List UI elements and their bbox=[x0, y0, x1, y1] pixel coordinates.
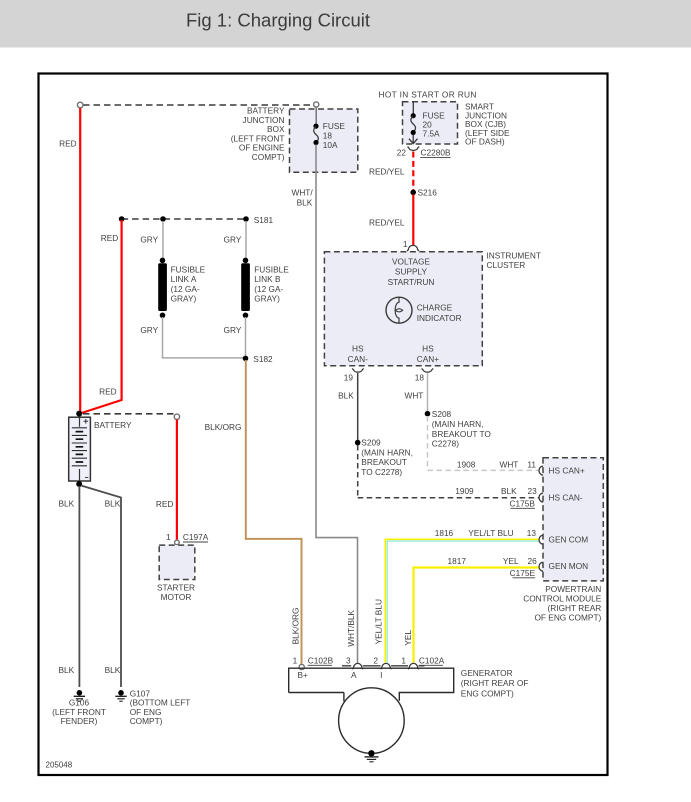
svg-text:(12 GA-: (12 GA- bbox=[254, 284, 283, 294]
svg-text:205048: 205048 bbox=[46, 761, 73, 770]
svg-text:SUPPLY: SUPPLY bbox=[395, 267, 428, 277]
wire RED left vertical bbox=[79, 108, 81, 412]
svg-text:Fig 1: Charging Circuit: Fig 1: Charging Circuit bbox=[186, 10, 370, 31]
generator connector row bbox=[342, 665, 425, 667]
fusible link B bbox=[243, 258, 249, 264]
node S182 bbox=[243, 356, 249, 362]
svg-text:YEL: YEL bbox=[503, 556, 519, 566]
diagram frame bbox=[39, 74, 608, 776]
svg-text:POWERTRAIN: POWERTRAIN bbox=[545, 584, 601, 594]
svg-text:3: 3 bbox=[346, 655, 351, 665]
svg-text:OF ENG COMPT): OF ENG COMPT) bbox=[534, 612, 601, 622]
svg-text:B+: B+ bbox=[298, 670, 309, 680]
svg-text:10A: 10A bbox=[323, 140, 338, 150]
wire GRY to fusible link A bbox=[162, 221, 164, 259]
svg-text:GRY: GRY bbox=[140, 325, 158, 335]
svg-text:S182: S182 bbox=[253, 354, 273, 364]
wire BLK/ORG S182 to generator B+ bbox=[246, 360, 302, 664]
svg-text:RED: RED bbox=[99, 387, 117, 397]
pin 1 bump bbox=[408, 663, 419, 669]
pin 26 C175E bbox=[539, 561, 544, 572]
svg-text:C102B: C102B bbox=[308, 655, 334, 665]
battery bbox=[69, 417, 91, 481]
wire RED from S181 to battery bbox=[80, 220, 122, 414]
powertrain control module box bbox=[543, 458, 603, 581]
svg-text:WHT/: WHT/ bbox=[291, 188, 313, 198]
svg-text:GRY: GRY bbox=[224, 234, 242, 244]
svg-text:CONTROL MODULE: CONTROL MODULE bbox=[523, 593, 602, 603]
svg-text:CAN+: CAN+ bbox=[417, 354, 440, 364]
smart junction box bbox=[403, 102, 458, 144]
svg-text:STARTER: STARTER bbox=[157, 582, 195, 592]
wire GRY link A to S182 bbox=[163, 317, 244, 358]
svg-text:YEL/LT BLU: YEL/LT BLU bbox=[468, 528, 513, 538]
svg-text:BLK: BLK bbox=[105, 499, 121, 509]
svg-text:BLK: BLK bbox=[105, 665, 121, 675]
svg-text:GRAY): GRAY) bbox=[254, 294, 280, 304]
svg-text:1: 1 bbox=[401, 655, 406, 665]
fusible link A bbox=[160, 258, 166, 264]
wire dashed battery to starter bbox=[83, 413, 174, 415]
svg-text:GEN MON: GEN MON bbox=[549, 561, 589, 571]
svg-text:S209: S209 bbox=[361, 438, 381, 448]
svg-text:(MAIN HARN,: (MAIN HARN, bbox=[361, 447, 413, 457]
title bar bbox=[0, 0, 691, 48]
pin 18 bbox=[422, 368, 434, 372]
svg-text:BLK/ORG: BLK/ORG bbox=[205, 422, 242, 432]
svg-text:WHT: WHT bbox=[499, 459, 518, 469]
svg-text:RED/YEL: RED/YEL bbox=[369, 166, 405, 176]
svg-text:1817: 1817 bbox=[448, 556, 467, 566]
svg-text:RED/YEL: RED/YEL bbox=[369, 218, 405, 228]
node S216 bbox=[410, 190, 416, 196]
svg-text:(MAIN HARN,: (MAIN HARN, bbox=[432, 419, 484, 429]
svg-text:INDICATOR: INDICATOR bbox=[417, 313, 462, 323]
generator ground bbox=[368, 750, 374, 756]
instrument cluster box bbox=[324, 252, 482, 366]
svg-text:COMPT): COMPT) bbox=[252, 152, 285, 162]
svg-text:MOTOR: MOTOR bbox=[161, 592, 192, 602]
wire 1817 YEL bbox=[414, 568, 539, 663]
ground G107 bbox=[118, 690, 124, 696]
wire 1816 YEL/LT BLU bbox=[385, 539, 539, 663]
svg-text:CAN-: CAN- bbox=[348, 354, 369, 364]
wire GRY to fusible link B bbox=[245, 221, 247, 259]
svg-text:GEN COM: GEN COM bbox=[549, 534, 589, 544]
svg-text:C102A: C102A bbox=[419, 655, 445, 665]
wire WHT pin18 to S208 bbox=[427, 373, 429, 411]
svg-text:BLK: BLK bbox=[59, 499, 75, 509]
svg-text:CLUSTER: CLUSTER bbox=[487, 260, 526, 270]
wire WHT/BLK BJB to generator A bbox=[316, 145, 358, 664]
svg-text:S181: S181 bbox=[254, 215, 274, 225]
fuse 18 bbox=[315, 107, 317, 124]
svg-text:11: 11 bbox=[527, 459, 536, 469]
svg-text:(RIGHT REAR OF: (RIGHT REAR OF bbox=[461, 678, 529, 688]
pin 1 C197A bbox=[175, 540, 180, 545]
svg-text:GRY: GRY bbox=[224, 325, 242, 335]
svg-text:GENERATOR: GENERATOR bbox=[461, 668, 513, 678]
pin 11 bbox=[539, 465, 544, 476]
svg-text:BREAKOUT: BREAKOUT bbox=[361, 457, 407, 467]
node S181 bbox=[119, 216, 125, 222]
svg-text:1: 1 bbox=[403, 239, 408, 249]
ground G106 bbox=[77, 690, 83, 696]
node battery positive bbox=[76, 411, 82, 417]
svg-text:13: 13 bbox=[527, 528, 537, 538]
svg-text:1909: 1909 bbox=[455, 486, 474, 496]
pin 2 bump bbox=[381, 663, 392, 669]
svg-text:22: 22 bbox=[397, 148, 407, 158]
wire 1908 WHT dashed bbox=[428, 416, 539, 470]
svg-text:S216: S216 bbox=[418, 188, 438, 198]
svg-text:HS: HS bbox=[422, 344, 434, 354]
svg-text:23: 23 bbox=[527, 486, 537, 496]
svg-text:HS: HS bbox=[352, 344, 364, 354]
wire 1909 BLK dashed bbox=[358, 445, 539, 498]
svg-text:S208: S208 bbox=[432, 409, 452, 419]
wire dashed top bus bbox=[83, 104, 313, 106]
svg-text:(12 GA-: (12 GA- bbox=[171, 284, 200, 294]
svg-text:FUSIBLE: FUSIBLE bbox=[254, 264, 289, 274]
svg-text:RED: RED bbox=[59, 139, 77, 149]
svg-text:A: A bbox=[351, 670, 357, 680]
svg-text:C175B: C175B bbox=[510, 498, 536, 508]
svg-text:HS CAN-: HS CAN- bbox=[549, 492, 583, 502]
wire RED to starter motor bbox=[176, 420, 178, 541]
pin 23 C175B bbox=[539, 492, 544, 503]
svg-text:OF DASH): OF DASH) bbox=[465, 137, 505, 147]
node B+ open circle bbox=[299, 664, 304, 669]
svg-text:1: 1 bbox=[166, 532, 171, 542]
svg-text:YEL: YEL bbox=[403, 630, 413, 646]
svg-text:1816: 1816 bbox=[435, 528, 454, 538]
wire RED/YEL S216 to cluster pin 1 bbox=[412, 195, 414, 246]
pin 3 bump bbox=[352, 663, 363, 669]
svg-text:YEL/LT BLU: YEL/LT BLU bbox=[373, 599, 383, 644]
svg-text:RED: RED bbox=[101, 233, 119, 243]
pin 19 bbox=[352, 368, 364, 372]
svg-text:START/RUN: START/RUN bbox=[388, 277, 435, 287]
svg-text:BLK: BLK bbox=[59, 665, 75, 675]
svg-text:2: 2 bbox=[373, 655, 378, 665]
svg-text:BLK: BLK bbox=[338, 391, 354, 401]
svg-text:TO C2278): TO C2278) bbox=[361, 467, 402, 477]
node S208 bbox=[425, 411, 431, 417]
svg-text:C2278): C2278) bbox=[432, 439, 459, 449]
svg-text:FUSE: FUSE bbox=[323, 121, 346, 131]
svg-text:7.5A: 7.5A bbox=[423, 129, 441, 139]
svg-text:18: 18 bbox=[415, 372, 425, 382]
node top-left open circle bbox=[77, 102, 83, 108]
svg-text:FUSIBLE: FUSIBLE bbox=[171, 264, 206, 274]
svg-text:18: 18 bbox=[323, 131, 333, 141]
svg-text:19: 19 bbox=[344, 372, 354, 382]
svg-text:FENDER): FENDER) bbox=[61, 716, 98, 726]
battery junction box bbox=[290, 109, 358, 172]
svg-text:COMPT): COMPT) bbox=[130, 716, 163, 726]
svg-text:BREAKOUT TO: BREAKOUT TO bbox=[432, 429, 492, 439]
svg-text:INSTRUMENT: INSTRUMENT bbox=[487, 250, 541, 260]
svg-text:RED: RED bbox=[156, 499, 174, 509]
svg-text:VOLTAGE: VOLTAGE bbox=[392, 256, 430, 266]
fuse 20 bbox=[412, 102, 414, 114]
wire S181 dashed bus bbox=[122, 218, 247, 220]
svg-text:1: 1 bbox=[293, 655, 298, 665]
charge indicator bbox=[386, 297, 412, 323]
wire BLK battery to G107 bbox=[81, 486, 121, 688]
svg-text:BLK: BLK bbox=[297, 197, 313, 207]
wire BLK pin19 to S209 bbox=[357, 373, 359, 440]
pin 22 C2280B bbox=[408, 147, 420, 151]
svg-text:1908: 1908 bbox=[457, 459, 476, 469]
svg-text:HOT IN START OR RUN: HOT IN START OR RUN bbox=[379, 90, 477, 100]
svg-text:BATTERY: BATTERY bbox=[94, 420, 132, 430]
svg-text:WHT/BLK: WHT/BLK bbox=[346, 609, 356, 646]
svg-text:(RIGHT REAR: (RIGHT REAR bbox=[548, 603, 602, 613]
svg-text:HS CAN+: HS CAN+ bbox=[549, 465, 585, 475]
svg-text:BLK: BLK bbox=[501, 486, 517, 496]
wire BLK battery to G106 bbox=[78, 486, 80, 687]
svg-text:26: 26 bbox=[527, 556, 537, 566]
svg-text:GRAY): GRAY) bbox=[171, 294, 197, 304]
svg-text:C175E: C175E bbox=[510, 568, 536, 578]
node battery negative bbox=[76, 481, 82, 487]
svg-text:ENG COMPT): ENG COMPT) bbox=[461, 688, 514, 698]
svg-text:C197A: C197A bbox=[183, 532, 209, 542]
node S209 bbox=[355, 440, 361, 446]
generator body bbox=[289, 668, 454, 701]
svg-text:CHARGE: CHARGE bbox=[417, 303, 453, 313]
node open circle BJB top bbox=[314, 102, 319, 107]
svg-text:BLK/ORG: BLK/ORG bbox=[290, 608, 300, 645]
svg-text:C2280B: C2280B bbox=[421, 148, 451, 158]
svg-text:I: I bbox=[380, 670, 382, 680]
svg-text:GRY: GRY bbox=[140, 234, 158, 244]
svg-text:LINK B: LINK B bbox=[254, 274, 281, 284]
starter motor bbox=[159, 545, 195, 579]
pin 13 bbox=[539, 534, 544, 545]
node open circle starter branch bbox=[174, 414, 179, 419]
svg-text:WHT: WHT bbox=[404, 391, 423, 401]
wire GRY link B to S182 bbox=[245, 317, 247, 356]
svg-text:LINK A: LINK A bbox=[171, 274, 197, 284]
wire RED/YEL dashed to S216 bbox=[412, 152, 414, 191]
